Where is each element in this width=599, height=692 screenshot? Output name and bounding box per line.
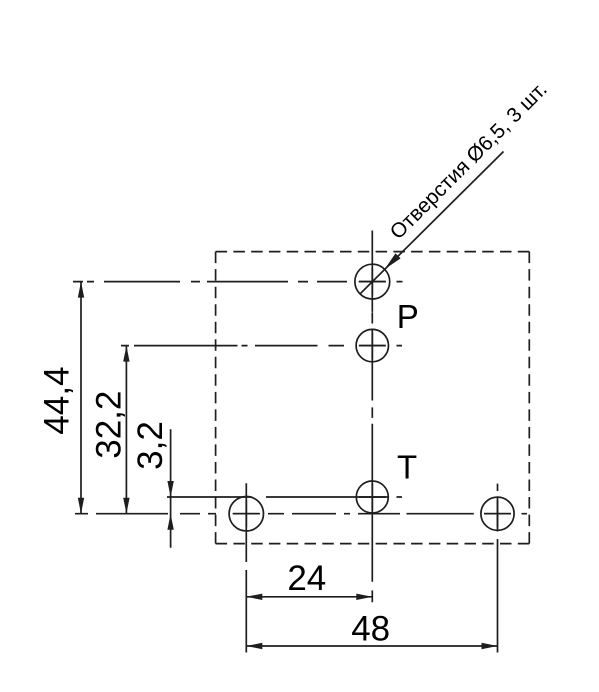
svg-text:48: 48: [351, 609, 390, 648]
svg-text:32,2: 32,2: [89, 391, 128, 459]
svg-text:P: P: [397, 298, 419, 335]
svg-text:24: 24: [287, 559, 326, 598]
svg-text:T: T: [397, 449, 417, 486]
svg-text:3,2: 3,2: [131, 421, 170, 470]
svg-text:44,4: 44,4: [38, 366, 77, 434]
